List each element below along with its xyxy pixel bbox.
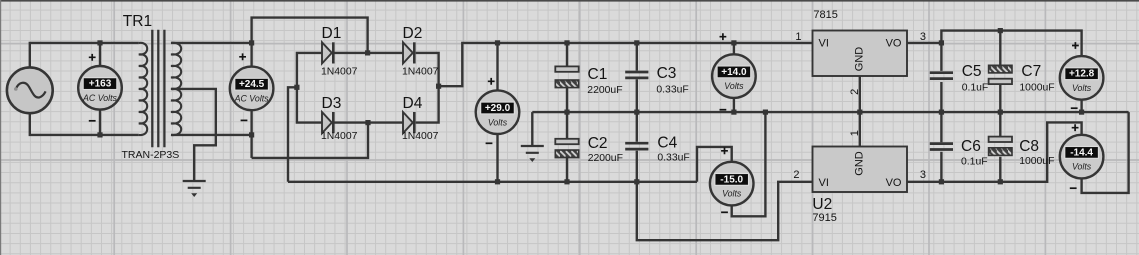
junction bridge top AC input — [365, 50, 370, 55]
junction VM3- on rail B — [495, 179, 500, 184]
svg-text:0.1uF: 0.1uF — [962, 82, 989, 93]
wire D3 cathode to D4 anode — [334, 121, 403, 123]
wire C1 stems — [566, 43, 568, 112]
voltmeter VM3 (+29.0) — [476, 78, 520, 143]
capacitor C5 — [930, 73, 953, 79]
wire bridge + node to main positive rail — [439, 43, 813, 86]
svg-text:1N4007: 1N4007 — [321, 67, 358, 78]
junction C4 bottom — [634, 179, 639, 184]
svg-text:AC Volts: AC Volts — [82, 93, 117, 103]
wire C4 stems — [636, 112, 638, 182]
wire C6 stems — [940, 112, 942, 182]
svg-text:D4: D4 — [403, 95, 423, 112]
svg-text:GND: GND — [854, 47, 866, 72]
svg-text:7815: 7815 — [813, 9, 837, 21]
junction VM1- on bottom rail — [97, 132, 102, 137]
svg-text:1: 1 — [849, 130, 861, 136]
wire D1 cathode to D2 anode — [334, 52, 403, 54]
wire VM7 minus path to mid rail — [1082, 112, 1129, 193]
transformer TR1 — [139, 30, 181, 148]
svg-text:C1: C1 — [588, 66, 608, 83]
wire rail B to U2 VI via bottom — [637, 182, 813, 240]
voltmeter VM7 (-14.4) — [1060, 124, 1104, 188]
capacitor C2 — [555, 139, 578, 158]
svg-text:C7: C7 — [1021, 63, 1041, 80]
svg-text:1: 1 — [795, 31, 801, 43]
diode D1 — [322, 42, 333, 63]
wire VM3 bottom stub — [496, 134, 498, 182]
junction VM4+ on rail — [731, 40, 736, 45]
svg-text:3: 3 — [920, 31, 926, 43]
svg-text:2200uF: 2200uF — [587, 85, 622, 96]
wire D2 cathode down to + node — [416, 53, 439, 86]
junction C6 bottom — [939, 179, 944, 184]
wire D4 cathode up to + node — [416, 86, 439, 122]
svg-text:Volts: Volts — [1072, 162, 1092, 172]
wire center tap to ground — [171, 89, 216, 181]
svg-text:VI: VI — [819, 177, 829, 189]
svg-text:2200uF: 2200uF — [588, 153, 623, 164]
svg-text:VO: VO — [886, 38, 902, 50]
diode D2 — [403, 42, 414, 63]
svg-text:TRAN-2P3S: TRAN-2P3S — [122, 149, 180, 161]
capacitor C7 — [989, 65, 1012, 84]
junction secondary bottom / VM2- — [249, 132, 254, 137]
wire VM5 plus path — [697, 147, 732, 182]
svg-text:Volts: Volts — [488, 117, 508, 127]
svg-text:AC Volts: AC Volts — [234, 94, 269, 104]
voltmeter VM4 (+14.0) — [712, 33, 756, 109]
svg-text:1N4007: 1N4007 — [321, 131, 358, 142]
svg-text:C3: C3 — [657, 65, 677, 82]
svg-text:+14.0: +14.0 — [721, 67, 747, 78]
junction VM1+ on top rail — [97, 40, 102, 45]
wire VM1 bottom stub — [99, 110, 101, 135]
wire bridge negative branch down — [288, 87, 297, 182]
junction C7/C8 mid rail — [998, 110, 1003, 115]
svg-text:+24.5: +24.5 — [239, 79, 265, 90]
wire ground G2 stem — [531, 112, 533, 146]
junction VM6- mid rail — [1079, 110, 1084, 115]
svg-text:1000uF: 1000uF — [1019, 156, 1054, 167]
wire U1 VO to top right rail — [907, 31, 1082, 56]
voltmeter VM1 (+163 AC) — [78, 54, 122, 121]
svg-text:U2: U2 — [812, 196, 832, 213]
svg-text:2: 2 — [793, 169, 799, 181]
capacitor C4 — [625, 143, 648, 149]
svg-text:+12.8: +12.8 — [1069, 69, 1095, 80]
svg-text:C6: C6 — [961, 138, 981, 155]
wire rail A to bridge bottom input — [252, 123, 368, 158]
regulator U1 7815 — [813, 31, 908, 77]
svg-text:C4: C4 — [657, 134, 677, 151]
wire VM2 top stub — [250, 43, 252, 67]
svg-text:7915: 7915 — [812, 212, 836, 224]
svg-text:2: 2 — [849, 89, 861, 95]
svg-text:VO: VO — [886, 177, 902, 189]
wire U2 VO rail to VM7 — [907, 122, 1082, 181]
svg-text:-14.4: -14.4 — [1070, 147, 1093, 158]
junction C3 top — [634, 40, 639, 45]
wire C8 stems — [999, 112, 1001, 182]
svg-text:-15.0: -15.0 — [720, 174, 743, 185]
svg-text:0.33uF: 0.33uF — [656, 85, 688, 96]
svg-text:D3: D3 — [322, 95, 342, 112]
svg-text:D2: D2 — [403, 25, 423, 42]
junction C7 top — [998, 28, 1003, 33]
wire secondary bottom stub — [171, 134, 252, 136]
wire bridge left vertical D1/D3 anodes — [297, 53, 322, 123]
svg-text:1N4007: 1N4007 — [402, 67, 439, 78]
svg-text:+163: +163 — [89, 79, 112, 90]
wire VM2 bottom stub — [250, 110, 252, 157]
junction VM2+ node — [249, 40, 254, 45]
junction bridge bottom AC input — [365, 120, 370, 125]
wire VM6 bottom stub — [1080, 100, 1082, 112]
junction C4 top mid rail — [634, 110, 639, 115]
wire U1 pin2 / U2 pin1 riser — [859, 76, 861, 147]
junction regulator GND mid rail — [857, 110, 862, 115]
voltmeter VM2 (+24.5 AC) — [230, 53, 274, 120]
voltmeter VM5 (-15.0) — [710, 147, 754, 212]
svg-text:GND: GND — [854, 151, 866, 176]
svg-text:Volts: Volts — [722, 189, 742, 199]
wire mid ground rail — [532, 111, 1128, 113]
junction VM4- mid rail — [731, 110, 736, 115]
wire VM4 stubs — [733, 43, 735, 112]
svg-text:1000uF: 1000uF — [1019, 82, 1054, 93]
wire VM3 top stub — [496, 43, 498, 91]
regulator U2 7915 — [813, 147, 908, 193]
wire AC source bottom to primary bottom — [30, 113, 139, 135]
junction C5/U1 VO — [939, 40, 944, 45]
wire C5 stems — [940, 43, 942, 112]
voltmeter VM6 (+12.8) — [1060, 42, 1104, 108]
svg-text:C5: C5 — [962, 63, 982, 80]
wire C3 stems — [636, 43, 638, 112]
diode D4 — [403, 112, 414, 133]
junction C5/C6 mid rail — [939, 110, 944, 115]
junction C2 bottom — [564, 179, 569, 184]
svg-text:1N4007: 1N4007 — [402, 131, 439, 142]
svg-text:VI: VI — [819, 38, 829, 50]
junction C8 bottom — [998, 179, 1003, 184]
capacitor C8 — [989, 137, 1012, 156]
wire rail B negative rail — [288, 181, 697, 183]
svg-text:0.33uF: 0.33uF — [657, 153, 689, 164]
svg-text:+29.0: +29.0 — [485, 103, 511, 114]
wire VM5 minus path to mid rail — [732, 112, 766, 216]
AC source V1 — [7, 67, 53, 113]
junction VM5- riser mid rail — [763, 110, 768, 115]
junction VM3+ on rail — [495, 40, 500, 45]
svg-text:C8: C8 — [1019, 138, 1039, 155]
junction bridge negative node — [294, 85, 299, 90]
svg-text:D1: D1 — [322, 25, 342, 42]
wire node VM2+ up and over to bridge top input — [252, 18, 368, 53]
svg-text:TR1: TR1 — [123, 13, 152, 30]
capacitor C6 — [930, 144, 953, 150]
diode D3 — [322, 112, 333, 133]
wire secondary top stub — [171, 42, 252, 44]
wire C2 stems — [566, 112, 568, 182]
svg-text:0.1uF: 0.1uF — [961, 157, 988, 168]
junction bridge positive node — [436, 84, 441, 89]
wire VM1 top stub — [99, 43, 101, 66]
junction C2 top mid rail — [564, 110, 569, 115]
wire C7 stems — [999, 31, 1001, 113]
wire AC source top to primary top — [30, 43, 139, 68]
junction C1 top — [564, 40, 569, 45]
svg-text:3: 3 — [920, 169, 926, 181]
svg-text:C2: C2 — [588, 135, 608, 152]
capacitor C1 — [555, 66, 578, 87]
capacitor C3 — [625, 72, 648, 78]
ground at filter mid rail — [521, 146, 544, 162]
svg-text:Volts: Volts — [1072, 83, 1092, 93]
svg-text:Volts: Volts — [724, 81, 744, 91]
ground below center tap — [183, 181, 206, 197]
